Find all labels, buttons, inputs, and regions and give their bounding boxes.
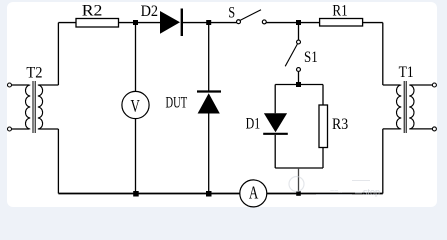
- svg-text:T1: T1: [399, 64, 414, 81]
- svg-text:D2: D2: [141, 2, 158, 20]
- svg-text:R3: R3: [332, 116, 348, 133]
- svg-text:S: S: [228, 4, 235, 22]
- svg-text:DUT: DUT: [166, 93, 188, 111]
- svg-text:V: V: [131, 97, 141, 117]
- svg-text:~~..: ~~..: [330, 188, 342, 195]
- svg-text:R1: R1: [332, 3, 347, 21]
- svg-text:D1: D1: [246, 115, 261, 133]
- svg-text:T2: T2: [26, 64, 42, 82]
- svg-text:stop: stop: [363, 187, 380, 197]
- svg-text:A: A: [249, 184, 259, 203]
- svg-text:S1: S1: [304, 49, 318, 67]
- svg-text:R2: R2: [82, 1, 103, 19]
